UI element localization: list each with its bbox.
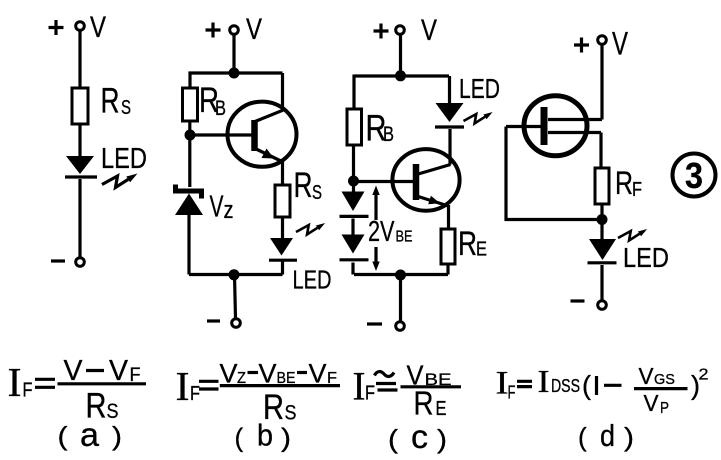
formula (c) caption [388,418,447,455]
resistor RS (b) [275,185,290,217]
formula (a) denominator RS [86,387,119,426]
light-emission arrows (a) [102,174,138,188]
jfet Q1 gate lead (d) [506,125,544,128]
minus sign (c) [367,322,382,325]
resistor RS (a) [72,88,88,124]
label RS (b) [294,166,323,205]
svg-text:LED: LED [623,242,669,273]
formula (d) digit one [595,376,598,395]
light-emission arrows (c) [464,112,493,123]
wire bottom rail (c) [354,273,448,276]
svg-text:LED: LED [101,143,147,175]
resistor RE (c) [441,229,455,264]
node V+ plus sign (b) [206,23,221,38]
wire base lead (b) [190,133,252,136]
wire junction to LED (d) [600,220,603,241]
wire D1 to D2 (c) [351,219,354,236]
svg-text:I: I [538,363,550,399]
svg-text:F: F [508,382,516,402]
resistor RB (c) [347,109,362,145]
zener diode VZ (b) [175,185,203,216]
svg-text:BE: BE [396,229,413,246]
label 2VBE (c) [368,216,413,248]
jfet Q1 drain lead (d) [548,118,602,121]
resistor RF (d) [595,168,609,204]
svg-text:S: S [121,97,131,119]
svg-text:E: E [476,239,487,261]
light-emission arrows (b) [296,223,325,234]
formula (a) caption [58,416,123,453]
label RS (a) [101,82,132,121]
node V+ terminal (c) [396,26,405,35]
formula (d) close paren [691,371,700,401]
formula (c) denominator RE [414,385,447,422]
wire zener to rail (b) [187,214,190,275]
wire emitter to RE (c) [447,205,450,229]
figure number circled 3 [673,154,716,197]
feedback wire gate to source node (d) [506,127,602,220]
svg-text:(: ( [58,421,68,451]
svg-text:F: F [632,179,642,201]
svg-text:DSS: DSS [551,376,580,396]
svg-text:(: ( [578,422,587,452]
svg-text:V: V [639,363,655,389]
wire RF to junction (d) [600,204,603,220]
junction base node (c) [348,176,359,187]
diode D1 (c) [340,192,369,217]
svg-text:z: z [224,197,234,224]
wire RB to zener (b) [188,121,191,187]
svg-text:(: ( [388,424,398,454]
svg-text:3: 3 [685,155,703,196]
diode D2 (c) [340,235,369,260]
svg-text:R: R [458,225,477,263]
svg-text:R: R [615,165,633,201]
svg-text:(: ( [235,423,244,453]
wire to V- (b) [235,275,236,319]
svg-text:2V: 2V [368,216,395,248]
svg-text:I: I [176,363,190,409]
wire rail to RB (b) [188,72,191,89]
node V+ terminal (d) [598,36,607,45]
svg-text:V: V [644,390,660,416]
formula (d) denominator VP [644,390,670,417]
svg-text:V: V [421,14,437,47]
node V+ plus sign (a) [49,20,64,35]
formula (d) numerator VGS [639,363,676,389]
wire V+ to RS (a) [78,31,81,89]
LED D1 (b) [269,238,297,260]
jfet Q1 body circle (d) [524,96,587,156]
svg-text:V: V [210,189,224,224]
formula (d) open paren [582,371,591,401]
wire V+ to drain (d) [600,45,603,120]
formula (a) fraction bar [58,382,147,385]
svg-text:R: R [101,82,120,121]
node V- terminal (d) [598,301,607,310]
node V- terminal (c) [396,322,405,331]
wire LED to collector (c) [448,129,451,165]
jfet Q1 source lead (d) [548,133,601,169]
formula (b) denominator RS [263,388,297,427]
formula (a) equals [35,379,55,387]
wire base lead (c) [354,180,414,183]
resistor RB (b) [183,88,198,121]
formula (c) approx-equals [375,372,398,390]
wire RS to LED (a) [78,124,81,158]
wire rail to LED (c) [448,76,451,104]
wire top rail (c) [354,74,449,77]
transistor Q1 (b) [228,102,297,167]
wire LED to V- (a) [78,179,81,258]
svg-text:(: ( [582,371,591,401]
svg-text:S: S [107,400,119,423]
formula (c) fraction bar [401,385,462,388]
svg-text:LED: LED [459,73,500,104]
label RB (c) [366,108,395,149]
wire LED to rail (b) [281,261,284,275]
formula (a) numerator V-VF [64,355,141,387]
dimension arrow 2VBE bottom (c) [372,247,379,271]
svg-text:F: F [365,383,375,405]
wire RB to diodes (c) [352,145,355,192]
svg-text:d: d [600,418,615,453]
svg-text:S: S [312,182,322,204]
wire emitter to RS (b) [281,161,284,185]
formula (d) exponent 2 [699,367,709,384]
formula (d) IDSS [538,363,581,399]
junction base node (b) [185,130,196,141]
svg-text:I: I [353,364,366,409]
svg-text:LED: LED [293,265,332,295]
svg-text:): ) [624,422,634,452]
svg-text:2: 2 [699,367,709,384]
formula (b) equals [199,381,219,389]
svg-text:R: R [294,166,313,205]
label RB (b) [199,81,226,120]
label RE (c) [458,225,487,263]
svg-text:): ) [437,424,447,454]
label RF (d) [615,165,642,201]
svg-text:F: F [190,383,200,405]
junction source node (d) [597,214,608,225]
formula (b) IF [176,363,201,409]
label VZ (b) [210,189,234,225]
svg-text:P: P [660,400,669,417]
svg-text:B: B [383,123,394,146]
wire LED to V- (d) [600,265,603,301]
formula (b) fraction bar [220,384,340,387]
node V+ plus sign (c) [374,24,389,39]
node V+ terminal (b) [230,26,239,35]
node V+ terminal (a) [76,22,85,31]
svg-text:B: B [215,97,226,120]
minus sign (d) [571,299,585,302]
wire to V- (c) [399,275,402,322]
transistor Q1 (c) [392,149,459,211]
formula (d) fraction bar [634,387,688,390]
formula (b) numerator VZ-VBE-VF [220,359,338,389]
wire V+ drop (b) [232,35,235,74]
wire V+ drop (c) [399,35,402,77]
wire top rail (b) [189,71,283,74]
svg-text:a: a [80,416,100,453]
junction bottom (b) [229,269,240,280]
minus sign (a) [51,259,65,262]
formula (d) equals [517,381,532,386]
formula (c) IF [353,364,376,409]
svg-text:): ) [281,423,291,453]
LED D3 (c) [435,103,464,127]
minus sign (b) [207,319,220,322]
wire RE to rail (c) [446,264,449,275]
svg-text:V: V [90,11,106,44]
svg-text:V: V [246,13,262,46]
formula (d) minus [604,384,622,387]
svg-text:R: R [414,385,434,422]
formula (c) numerator VBE [407,360,452,391]
wire rail to RB (c) [352,75,355,110]
node V- terminal (b) [232,319,241,328]
svg-text:I: I [8,359,22,405]
wire D2 to rail (c) [351,263,354,275]
svg-text:V: V [612,26,628,62]
node V- terminal (a) [76,258,85,267]
LED D1 (a) [65,156,97,177]
dimension arrow 2VBE top (c) [372,186,379,221]
wire RS to LED (b) [281,217,284,240]
wire bottom rail (b) [189,273,283,276]
formula (d) caption [578,418,634,453]
formula (d) IF [496,366,516,403]
svg-text:c: c [411,418,428,455]
svg-text:GS: GS [654,371,675,388]
junction top (c) [395,70,406,81]
junction top (b) [229,68,240,79]
junction bottom (c) [395,270,406,281]
svg-text:F: F [23,379,33,401]
svg-text:): ) [112,421,122,451]
svg-text:b: b [257,418,273,453]
formula (b) caption [235,418,292,453]
light-emission arrows (d) [618,229,647,240]
LED D1 (d) [588,239,617,263]
svg-text:S: S [285,402,297,425]
svg-text:E: E [436,398,447,420]
wire collector drop (b) [281,73,284,111]
node V+ plus sign (d) [574,38,589,53]
jfet Q1 channel bar (d) [541,107,548,145]
formula (a) IF [8,359,33,405]
